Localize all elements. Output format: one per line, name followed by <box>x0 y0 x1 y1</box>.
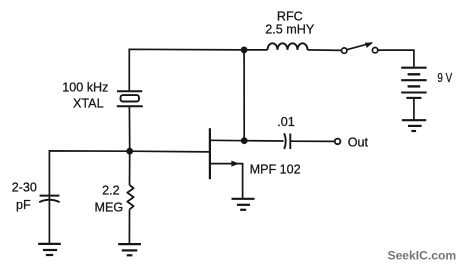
wire battery to ground <box>413 98 415 120</box>
switch S1 arm with arrow <box>347 43 373 50</box>
svg-text:pF: pF <box>16 198 31 212</box>
svg-text:2.5 mHY: 2.5 mHY <box>265 22 315 36</box>
wire node D to RFC <box>244 49 267 51</box>
switch S1 left contact <box>342 48 347 53</box>
wire RFC to switch S1 <box>308 49 342 52</box>
wire node B to capacitor C2 <box>244 140 283 142</box>
wire top rail left (crystal top lead up and over to node D) <box>129 49 244 91</box>
node A junction dot <box>126 148 133 155</box>
wire node B down from node D <box>243 50 245 141</box>
ground R1 <box>118 244 141 255</box>
svg-text:2.2: 2.2 <box>102 184 120 198</box>
transistor Q1 MPF 102 channel bar <box>209 128 211 179</box>
svg-text:SeekIC.com: SeekIC.com <box>388 249 457 263</box>
svg-text:XTAL: XTAL <box>73 97 104 111</box>
switch S1 right contact <box>372 48 377 53</box>
crystal Y1 100 kHz XTAL <box>117 91 143 106</box>
svg-text:9 V: 9 V <box>437 71 452 85</box>
wire switch to battery corner <box>378 50 414 67</box>
wire crystal bottom to node A <box>128 106 130 151</box>
wire resistor to ground <box>128 209 130 243</box>
ground battery <box>402 120 426 131</box>
wire node A to resistor R1 <box>129 151 131 185</box>
wire node A left to C1 corner <box>49 151 129 196</box>
capacitor C1 2-30 pF <box>39 196 59 244</box>
svg-text:100 kHz: 100 kHz <box>62 81 108 95</box>
node Out terminal circle <box>335 139 341 145</box>
svg-text:.01: .01 <box>277 115 295 129</box>
svg-text:Out: Out <box>348 135 369 149</box>
resistor R1 2.2 MEG <box>127 185 133 209</box>
inductor RFC 2.5 mHY <box>268 43 308 50</box>
ground C1 <box>38 244 61 255</box>
svg-text:MPF 102: MPF 102 <box>250 163 301 177</box>
wire drain to node B <box>210 139 244 141</box>
capacitor C2 .01 <box>284 133 290 149</box>
wire node A to gate <box>130 150 210 153</box>
transistor Q1 source lead with arrow <box>210 161 243 199</box>
battery B1 9V <box>401 68 426 98</box>
svg-text:2-30: 2-30 <box>12 181 37 195</box>
node B junction dot <box>241 137 248 144</box>
ground Q1 source <box>232 199 255 210</box>
svg-text:MEG: MEG <box>94 201 123 215</box>
wire C2 to output terminal <box>290 140 334 142</box>
node D junction dot <box>241 47 248 54</box>
